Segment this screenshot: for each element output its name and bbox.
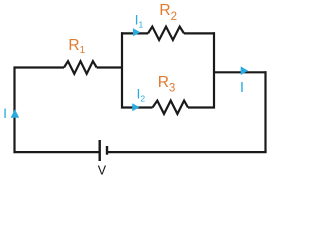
resistor R2 <box>148 27 184 40</box>
svg-text:I1: I1 <box>135 11 144 29</box>
current arrow I2 (bottom branch, pointing right) <box>132 103 139 111</box>
wire: left rail vertical <box>13 67 15 154</box>
svg-text:I: I <box>3 105 7 121</box>
svg-text:R3: R3 <box>158 74 176 94</box>
wire: top-left horizontal from left rail to R1 <box>14 66 65 68</box>
wire: bottom rail left of battery <box>14 151 100 153</box>
current arrow I (output wire, pointing right) <box>241 66 249 75</box>
wire: bottom rail right of battery <box>107 151 267 153</box>
current arrow I (left rail, pointing up) <box>11 109 20 118</box>
wire: bottom branch from R3 to node B <box>188 106 215 108</box>
resistor R3 <box>153 101 189 114</box>
wire: top branch from R2 to node B <box>184 32 215 34</box>
wire: top branch lead-in to R2 <box>121 32 148 34</box>
resistor R1 <box>64 61 97 74</box>
node B: right junction vertical of parallel section <box>213 32 215 108</box>
battery V (short negative plate) <box>106 146 108 155</box>
svg-text:I: I <box>240 79 244 96</box>
svg-text:V: V <box>98 163 107 177</box>
wire: output horizontal from node B to right rail <box>214 71 267 73</box>
svg-text:I2: I2 <box>137 86 146 104</box>
wire: bottom branch lead-in to R3 <box>121 106 153 108</box>
svg-text:R2: R2 <box>159 2 177 23</box>
battery V (long positive plate) <box>98 140 100 161</box>
node A: left junction vertical of parallel section <box>121 32 123 108</box>
wire: from R1 to node A (parallel split) <box>97 66 123 68</box>
wire: right rail vertical <box>264 71 266 152</box>
svg-text:R1: R1 <box>68 37 85 56</box>
current arrow I1 (top branch, pointing right) <box>133 28 140 36</box>
